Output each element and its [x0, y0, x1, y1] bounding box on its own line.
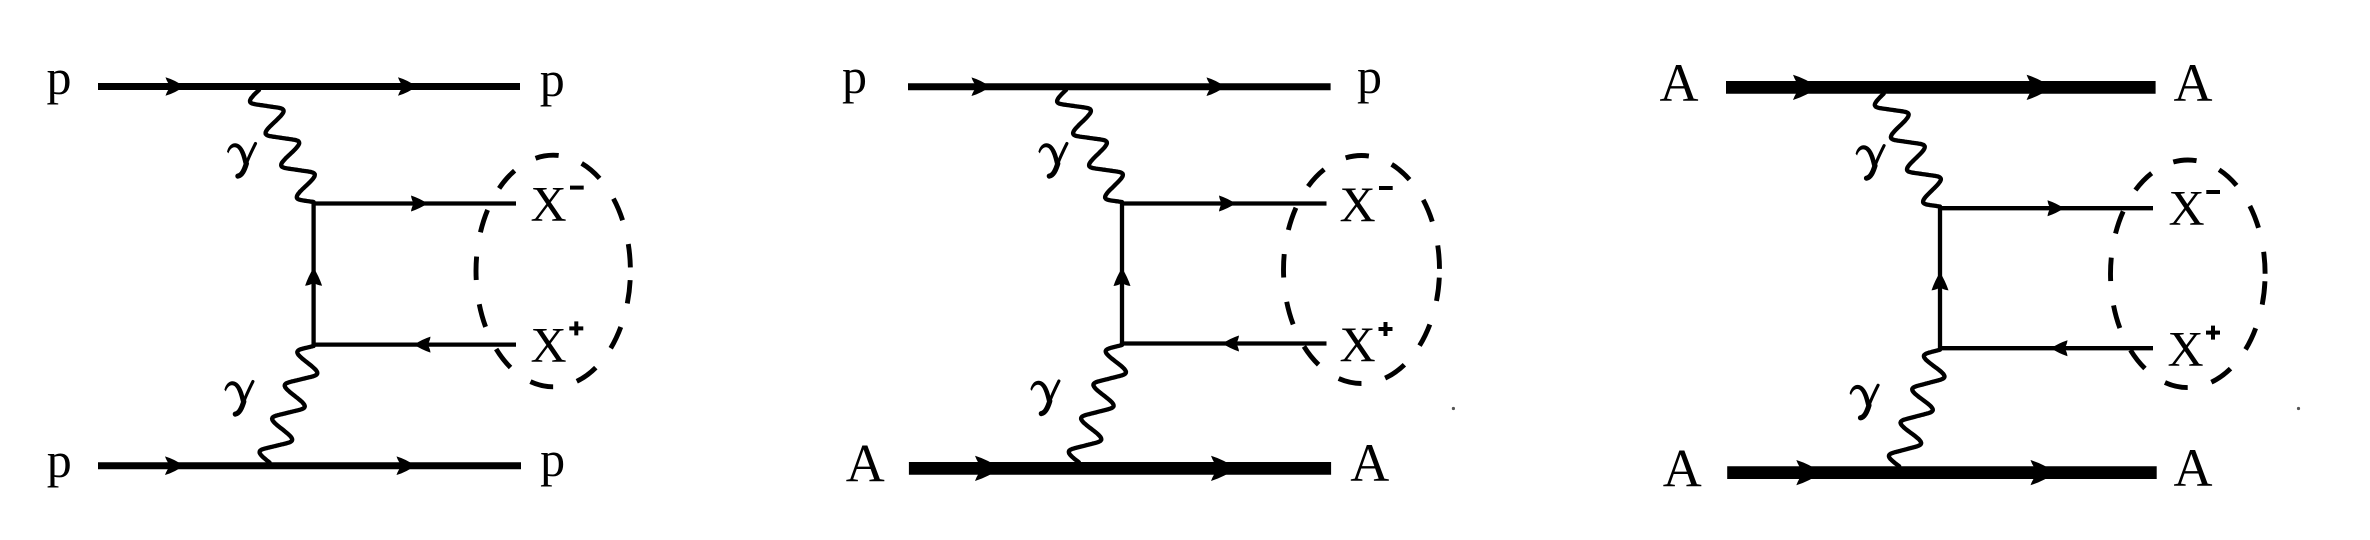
svg-text:p: p — [47, 432, 72, 488]
svg-text:X: X — [2169, 179, 2205, 235]
svg-text:p: p — [1357, 48, 1382, 104]
svg-text:A: A — [2174, 53, 2213, 113]
svg-text:A: A — [1350, 433, 1389, 493]
svg-text:X: X — [1340, 316, 1376, 372]
svg-text:p: p — [842, 48, 867, 104]
svg-text:X: X — [2168, 321, 2204, 377]
svg-text:p: p — [47, 49, 72, 105]
svg-text:A: A — [1663, 439, 1702, 499]
svg-text:A: A — [1660, 53, 1699, 113]
svg-text:X: X — [531, 176, 567, 232]
svg-text:A: A — [2174, 438, 2213, 498]
svg-text:p: p — [540, 51, 565, 107]
svg-text:p: p — [540, 431, 565, 487]
svg-text:A: A — [846, 434, 885, 494]
svg-text:X: X — [1340, 176, 1376, 232]
svg-text:X: X — [531, 316, 567, 372]
